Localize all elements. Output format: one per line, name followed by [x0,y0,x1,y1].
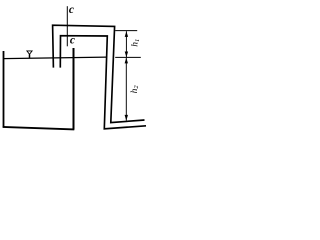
water surface line + extension to pipe [3,57,106,59]
dimension line h2 [125,58,127,121]
water level symbol (nabla) [27,51,32,54]
tank left wall [3,51,5,128]
arrowhead h2 bottom [125,115,128,121]
tank bottom [3,127,75,129]
extension line middle (water level, right of pipe) [115,56,141,58]
arrowhead h1 top [125,31,128,37]
siphon pipe outer wall (up-and-over) [53,25,145,122]
extension line top (pipe apex level) [115,30,137,32]
section line c-c [66,6,68,46]
tank right wall [73,48,75,130]
svg-text:c: c [70,35,75,47]
siphon pipe inner wall [60,36,146,129]
dimension line h1 [125,31,127,57]
svg-text:c: c [69,4,74,16]
arrowhead h1 bottom [125,52,128,58]
arrowhead h2 top [125,58,128,64]
